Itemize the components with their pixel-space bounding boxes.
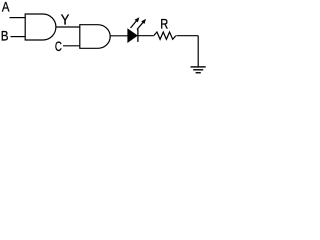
wire B	[11, 36, 26, 38]
svg-text:C: C	[55, 39, 62, 54]
node C	[55, 39, 62, 54]
svg-text:B: B	[1, 28, 9, 43]
resistor R zigzag	[154, 32, 176, 39]
node Y	[61, 13, 70, 29]
LED D1 triangle	[128, 29, 137, 41]
svg-text:A: A	[2, 0, 10, 15]
LED light arrow 2	[137, 19, 146, 30]
wire resistor to ground corner	[176, 35, 198, 37]
wire U2 output to LED anode	[110, 35, 128, 37]
LED light arrow 1	[131, 17, 140, 28]
label R	[160, 17, 168, 32]
wire Y	[56, 26, 80, 28]
wire A	[10, 17, 26, 19]
ground	[191, 67, 206, 73]
AND gate U2	[80, 25, 110, 49]
wire LED cathode to resistor	[138, 35, 154, 37]
LED D1 cathode bar	[137, 29, 139, 42]
node B	[1, 28, 9, 43]
AND gate U1	[25, 14, 56, 40]
node A	[2, 0, 10, 15]
svg-text:R: R	[160, 17, 168, 32]
wire C	[63, 45, 80, 47]
svg-text:Y: Y	[61, 13, 70, 29]
wire vertical down to ground	[197, 36, 199, 67]
